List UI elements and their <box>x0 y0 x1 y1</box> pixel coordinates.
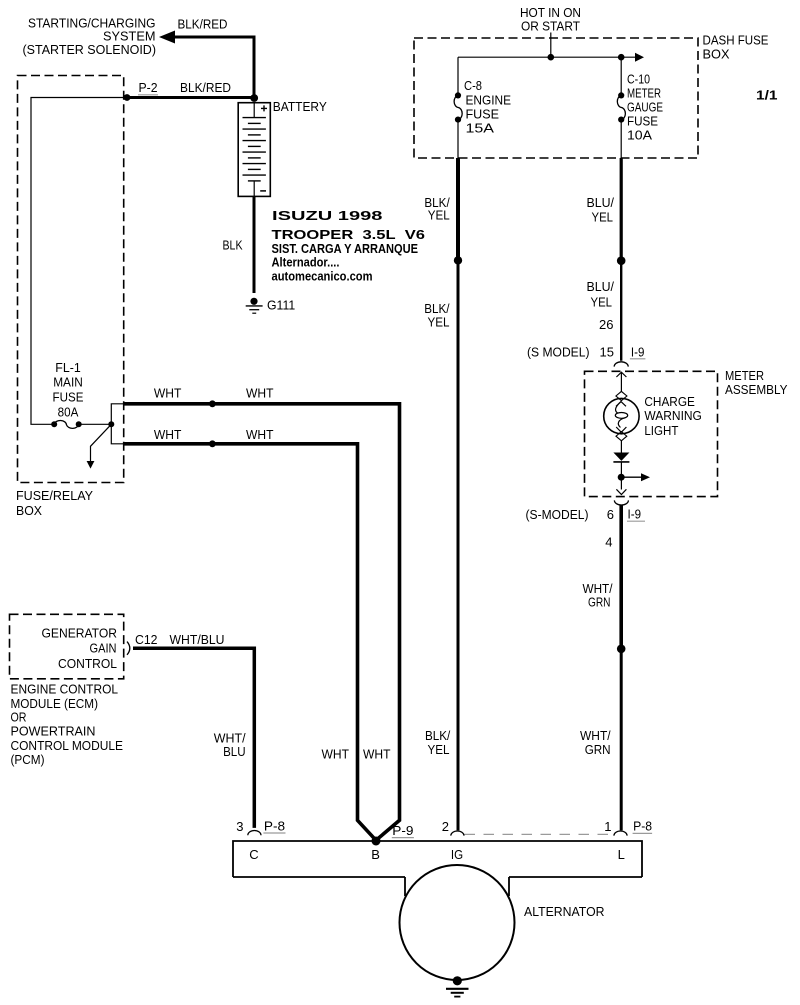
svg-text:4: 4 <box>605 535 612 550</box>
svg-text:(S MODEL): (S MODEL) <box>527 344 590 359</box>
svg-text:DASH FUSE: DASH FUSE <box>703 33 769 48</box>
wire P-2 to battery <box>127 96 254 99</box>
svg-text:P-9: P-9 <box>392 823 413 838</box>
svg-text:WHT: WHT <box>246 386 274 401</box>
svg-text:(STARTER SOLENOID): (STARTER SOLENOID) <box>23 42 157 57</box>
svg-text:3: 3 <box>236 819 243 834</box>
svg-text:Alternador....: Alternador.... <box>272 255 340 270</box>
svg-text:1: 1 <box>604 819 611 834</box>
node BLU/YEL splice <box>617 256 626 265</box>
svg-text:IG: IG <box>451 847 463 862</box>
svg-text:(PCM): (PCM) <box>11 752 45 767</box>
svg-text:FUSE/RELAY: FUSE/RELAY <box>16 488 93 503</box>
dash fuse box <box>414 38 698 158</box>
node WHT/GRN splice <box>617 645 626 654</box>
svg-text:MAIN: MAIN <box>53 374 83 389</box>
connector pin 3 <box>248 831 261 836</box>
svg-text:TROOPER 3.5L V6: TROOPER 3.5L V6 <box>272 227 426 242</box>
svg-text:YEL: YEL <box>428 742 450 757</box>
label GENERATOR GAIN CONTROL <box>42 625 118 671</box>
battery <box>238 103 270 197</box>
node P-2 <box>124 94 131 101</box>
svg-text:MODULE (ECM): MODULE (ECM) <box>11 696 99 711</box>
connector pin 1 <box>614 831 627 836</box>
svg-text:YEL: YEL <box>592 210 614 225</box>
svg-text:GAIN: GAIN <box>90 640 117 655</box>
title block <box>272 208 426 284</box>
node B apex <box>372 837 381 846</box>
ground G111 <box>246 298 263 314</box>
svg-text:10A: 10A <box>627 128 652 143</box>
svg-text:15: 15 <box>600 344 614 359</box>
svg-text:LIGHT: LIGHT <box>644 423 678 438</box>
svg-text:I-9: I-9 <box>628 507 642 522</box>
wire fuse box feed <box>458 56 635 58</box>
svg-text:BLK/: BLK/ <box>425 728 451 743</box>
svg-text:CHARGE: CHARGE <box>644 394 695 409</box>
wire WHT/BLU <box>133 648 254 828</box>
svg-text:WHT: WHT <box>363 747 391 762</box>
svg-text:26: 26 <box>599 317 613 332</box>
node hot feed <box>548 54 555 61</box>
svg-text:FUSE: FUSE <box>53 389 84 404</box>
svg-text:6: 6 <box>607 507 614 522</box>
wire WHT/GRN lower <box>620 649 623 831</box>
arrow out of meter <box>616 489 626 494</box>
ECM box <box>10 614 124 679</box>
svg-text:C: C <box>249 847 258 862</box>
wire BLK/RED to starting system <box>174 37 254 98</box>
svg-text:P-8: P-8 <box>633 818 652 833</box>
wire BLU/YEL upper <box>620 158 623 261</box>
charge warning light lamp <box>604 398 639 433</box>
alternator body <box>400 865 515 980</box>
svg-text:YEL: YEL <box>591 294 613 309</box>
wire diode to exit <box>620 462 622 490</box>
svg-text:METER: METER <box>627 86 661 101</box>
wire BLK/YEL upper <box>456 158 460 260</box>
node splice lower WHT <box>209 440 216 447</box>
svg-text:FUSE: FUSE <box>466 107 500 122</box>
svg-text:OR START: OR START <box>521 19 580 34</box>
svg-text:15A: 15A <box>466 121 495 136</box>
wire WHT/GRN upper <box>619 505 623 649</box>
svg-text:P-8: P-8 <box>264 818 285 833</box>
svg-text:(S-MODEL): (S-MODEL) <box>526 507 589 522</box>
svg-text:1/1: 1/1 <box>756 88 778 103</box>
wire fuse C-8 to box edge <box>457 120 459 158</box>
label FL-1 MAIN FUSE 80A <box>53 360 84 420</box>
svg-text:BLU: BLU <box>223 744 246 759</box>
label CHARGE WARNING LIGHT <box>644 394 702 438</box>
svg-text:2: 2 <box>442 819 449 834</box>
svg-text:WHT: WHT <box>322 747 350 762</box>
meter assembly box <box>585 371 718 496</box>
wire lamp to diode <box>620 441 622 453</box>
node FL-1 junction <box>108 421 114 427</box>
svg-text:POWERTRAIN: POWERTRAIN <box>11 724 96 739</box>
arrow to other circuits <box>91 424 112 461</box>
wire inside fuse/relay box <box>31 98 127 425</box>
svg-text:ISUZU 1998: ISUZU 1998 <box>272 208 383 223</box>
svg-text:C-10: C-10 <box>627 72 650 87</box>
svg-text:FUSE: FUSE <box>627 114 658 129</box>
svg-text:C-8: C-8 <box>464 78 482 93</box>
svg-text:METER: METER <box>725 368 764 383</box>
svg-text:WHT: WHT <box>246 427 274 442</box>
label C-10 METER GAUGE FUSE 10A <box>627 72 663 143</box>
svg-text:G111: G111 <box>267 298 295 313</box>
arrow into meter <box>616 372 626 377</box>
svg-text:GRN: GRN <box>588 594 611 609</box>
label C-8 ENGINE FUSE 15A <box>464 78 511 136</box>
svg-text:BATTERY: BATTERY <box>273 99 327 114</box>
svg-text:GAUGE: GAUGE <box>627 100 663 115</box>
fuse C-8 <box>454 92 462 122</box>
wire FL-1 to junction <box>79 423 112 425</box>
lamp terminal top <box>616 391 627 400</box>
node battery junction <box>250 94 258 102</box>
svg-text:YEL: YEL <box>428 208 450 223</box>
connector I-9 pin 6 <box>614 500 628 505</box>
node splice upper WHT <box>209 400 216 407</box>
lamp terminal bottom <box>616 432 627 441</box>
wire BLK/YEL lower <box>457 260 460 830</box>
alternator ground <box>446 976 469 996</box>
svg-text:ASSEMBLY: ASSEMBLY <box>725 382 788 397</box>
connector P-8 dashed link <box>465 833 614 835</box>
svg-text:I-9: I-9 <box>631 344 645 359</box>
svg-text:ENGINE CONTROL: ENGINE CONTROL <box>11 682 119 697</box>
wire BLU/YEL lower <box>620 261 622 361</box>
svg-text:WHT: WHT <box>154 386 182 401</box>
svg-text:BOX: BOX <box>703 47 730 62</box>
svg-text:GENERATOR: GENERATOR <box>42 625 118 640</box>
svg-text:P-2: P-2 <box>139 80 158 95</box>
svg-text:WHT: WHT <box>154 427 182 442</box>
wire to fuse C-8 <box>457 57 459 92</box>
svg-text:L: L <box>618 847 625 862</box>
arrow to gauges <box>624 476 641 478</box>
svg-text:WHT/: WHT/ <box>580 728 611 743</box>
wire hot feed stub <box>550 33 552 58</box>
arrow to starter solenoid <box>159 31 175 44</box>
alternator terminal strip <box>233 841 642 896</box>
svg-text:CONTROL: CONTROL <box>58 656 117 671</box>
wire WHT upper <box>124 404 400 841</box>
svg-text:BLK/RED: BLK/RED <box>180 80 231 95</box>
node meter junction <box>618 474 625 481</box>
wire to fuse C-10 <box>620 57 622 92</box>
label STARTING/CHARGING SYSTEM (STARTER SOLENOID) <box>23 15 157 57</box>
connector C12 <box>127 642 130 655</box>
svg-text:OR: OR <box>11 710 27 725</box>
wire fuse C-10 to box edge <box>620 120 622 158</box>
svg-text:YEL: YEL <box>428 315 450 330</box>
svg-text:BLU/: BLU/ <box>587 195 615 210</box>
svg-text:ALTERNATOR: ALTERNATOR <box>524 904 605 919</box>
svg-text:WARNING: WARNING <box>644 408 702 423</box>
svg-text:WHT/BLU: WHT/BLU <box>170 632 225 647</box>
connector pin 2 <box>451 831 464 836</box>
svg-text:C12: C12 <box>135 632 158 647</box>
fusible link FL-1 <box>51 420 81 428</box>
wire junction to WHT feeds <box>111 404 124 444</box>
node BLK/YEL splice <box>454 256 462 264</box>
fuse/relay box <box>18 76 124 483</box>
svg-text:automecanico.com: automecanico.com <box>272 269 373 284</box>
svg-text:GRN: GRN <box>585 742 611 757</box>
svg-text:BOX: BOX <box>16 503 42 518</box>
label ECM block <box>11 682 124 767</box>
svg-text:B: B <box>371 847 380 862</box>
svg-text:BLU/: BLU/ <box>587 279 615 294</box>
svg-text:80A: 80A <box>58 405 79 420</box>
svg-text:FL-1: FL-1 <box>55 360 81 375</box>
node C-10 tap <box>618 54 625 61</box>
svg-text:CONTROL MODULE: CONTROL MODULE <box>11 738 124 753</box>
diode <box>613 453 629 461</box>
wire WHT lower <box>124 444 376 841</box>
svg-text:BLK: BLK <box>223 237 243 252</box>
connector I-9 pin 15 <box>614 362 628 367</box>
fuse C-10 <box>617 92 625 122</box>
svg-text:ENGINE: ENGINE <box>466 93 512 108</box>
wire battery to ground <box>253 196 256 293</box>
svg-text:BLK/RED: BLK/RED <box>178 17 228 32</box>
